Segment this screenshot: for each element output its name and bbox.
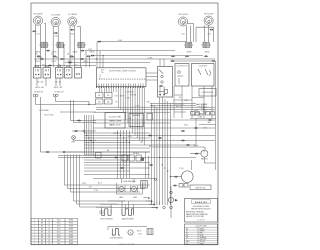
svg-text:H-2: H-2	[75, 64, 78, 66]
svg-text:BK-12: BK-12	[52, 61, 57, 63]
wire	[203, 86, 205, 118]
wire L2 bus	[34, 58, 215, 60]
connector CN46	[149, 164, 153, 166]
receptacle block J2	[56, 42, 65, 48]
svg-text:14: 14	[48, 220, 50, 222]
connector CN42	[208, 119, 212, 121]
svg-text:8 GY 6 BR: 8 GY 6 BR	[126, 91, 134, 93]
connector CN22	[97, 41, 101, 43]
connector CN3	[69, 55, 73, 57]
surface element SE3 (LF 1800W)	[68, 14, 77, 26]
svg-text:8 BU: 8 BU	[113, 133, 116, 135]
bake element E2	[122, 209, 134, 216]
svg-text:BK/W: BK/W	[36, 51, 41, 53]
connector pair P1	[32, 30, 36, 32]
svg-text:1 BK: 1 BK	[114, 96, 117, 98]
connector CN48	[148, 135, 152, 137]
wire	[69, 26, 71, 44]
svg-text:SEW1: SEW1	[69, 231, 74, 233]
wire rungs EOC-relay	[146, 72, 158, 74]
switch block SB4	[105, 99, 113, 104]
connector CN32	[60, 58, 64, 60]
svg-text:DISCONNECT POWER: DISCONNECT POWER	[193, 206, 210, 208]
svg-text:SEW1: SEW1	[69, 240, 74, 242]
svg-text:DOOR SW: DOOR SW	[199, 66, 207, 68]
legend box	[129, 114, 144, 127]
svg-text:LOCK MOTOR: LOCK MOTOR	[177, 66, 189, 68]
svg-text:14: 14	[48, 243, 50, 245]
relay K1 internals	[159, 70, 168, 94]
wire	[55, 78, 57, 86]
infinite switch S1	[34, 66, 42, 79]
svg-text:BAKE 12:00: BAKE 12:00	[110, 124, 122, 127]
label rows L2	[36, 57, 89, 66]
svg-text:1: 1	[34, 226, 35, 228]
svg-text:LR 1250W: LR 1250W	[51, 15, 60, 17]
wire	[191, 160, 193, 170]
warning box frame	[185, 199, 218, 223]
wire	[93, 178, 155, 180]
svg-text:14: 14	[48, 237, 50, 239]
connector CN2	[52, 55, 56, 57]
infinite switch S2	[43, 66, 51, 79]
wire end arrow	[154, 204, 156, 206]
wire bundle lower-left	[65, 155, 151, 208]
lower element E3	[112, 229, 120, 236]
pigtail	[179, 184, 183, 188]
svg-text:BK/W - BK: BK/W - BK	[35, 87, 44, 89]
svg-text:W 14 RD: W 14 RD	[130, 94, 137, 96]
svg-text:— ——: — ——	[134, 125, 139, 127]
connector pair P4	[209, 29, 213, 31]
svg-text:BEFORE SERVICING UNIT: BEFORE SERVICING UNIT	[191, 208, 210, 210]
svg-text:OVEN SENSOR: OVEN SENSOR	[202, 92, 215, 94]
svg-text:120V: 120V	[138, 233, 142, 235]
connector CN33	[80, 58, 84, 60]
terminal block TB1	[147, 229, 153, 235]
connector CN34	[68, 62, 72, 64]
connector pair P3	[70, 29, 74, 31]
svg-text:BROIL ELEMENT: BROIL ELEMENT	[100, 218, 113, 220]
svg-text:BK W: BK W	[137, 230, 141, 232]
wire	[211, 86, 213, 118]
wire	[63, 44, 65, 68]
aux box	[147, 114, 153, 121]
wire	[72, 130, 96, 132]
broil element E1	[102, 209, 112, 216]
relay lead arrows	[159, 94, 165, 96]
wire L1 bus	[97, 41, 186, 43]
svg-text:LF 1800W: LF 1800W	[68, 14, 77, 16]
wire	[74, 44, 76, 68]
wire	[57, 44, 59, 68]
fuse block F1	[96, 153, 102, 159]
svg-text:SEW1: SEW1	[69, 223, 74, 225]
infinite switch S4	[65, 66, 73, 79]
wire	[196, 26, 214, 28]
relay K2	[122, 155, 127, 161]
svg-text:4 W: 4 W	[89, 187, 92, 189]
wire	[150, 103, 196, 105]
junction dots	[84, 55, 171, 208]
wire	[45, 78, 47, 86]
wire	[45, 44, 47, 68]
wire	[34, 65, 96, 67]
svg-text:BK/W: BK/W	[73, 51, 78, 53]
svg-text:4BU: 4BU	[208, 122, 211, 124]
svg-text:1: 1	[34, 220, 35, 222]
svg-text:14: 14	[48, 240, 50, 242]
connector CN24	[211, 60, 215, 62]
ignitor box	[190, 185, 211, 190]
color code table	[185, 224, 218, 245]
cooling fan motor M1	[201, 150, 208, 157]
wire pair	[58, 155, 130, 157]
junction	[163, 206, 165, 208]
svg-text:1: 1	[34, 243, 35, 245]
svg-text:14: 14	[48, 226, 50, 228]
receptacle block J1	[40, 42, 49, 48]
svg-text:BK/W: BK/W	[187, 51, 192, 53]
connector CN43	[194, 127, 198, 129]
svg-text:2B - 2A: 2B - 2A	[55, 80, 62, 83]
oven sensor box	[199, 89, 216, 97]
surface element SE2 (LR 1250W)	[51, 15, 60, 27]
door switch box	[192, 64, 215, 87]
svg-text:1: 1	[34, 234, 35, 236]
connector CN6	[185, 55, 189, 57]
ground lamp G1	[72, 136, 76, 140]
wire	[215, 61, 217, 170]
wire bundle left	[85, 115, 94, 155]
wire bundle right	[152, 97, 171, 205]
wire drops to EOC	[86, 42, 103, 68]
svg-text:BK: BK	[179, 97, 181, 99]
connector CN44	[186, 144, 190, 146]
junction	[88, 104, 89, 105]
wire	[108, 226, 147, 228]
wire	[92, 55, 203, 57]
wire	[152, 146, 206, 148]
svg-text:F: F	[98, 155, 99, 157]
lock assembly box	[175, 64, 189, 87]
drawing border frame	[31, 3, 218, 245]
connector CN21	[90, 55, 94, 57]
right ladder rungs	[174, 99, 192, 101]
wire	[34, 44, 36, 68]
svg-text:RF 2450W: RF 2450W	[33, 13, 42, 15]
lock internals	[177, 71, 183, 84]
motor M3	[128, 230, 133, 235]
svg-text:14: 14	[48, 223, 50, 225]
svg-text:RR 1500W: RR 1500W	[178, 14, 187, 16]
svg-text:SEW1: SEW1	[69, 220, 74, 222]
connector CN49	[158, 137, 162, 139]
svg-text:BK-12: BK-12	[84, 61, 89, 63]
EOC pin drop wires	[100, 87, 145, 146]
wire	[108, 200, 152, 202]
wire	[34, 25, 36, 31]
connector CN23	[170, 60, 174, 62]
svg-text:12 BK: 12 BK	[148, 57, 154, 59]
surface element SE4 (RR 1500W)	[178, 14, 187, 26]
surface element SE1 (RF 2450W)	[33, 13, 42, 25]
svg-text:BK/W: BK/W	[205, 51, 210, 53]
svg-text:14: 14	[48, 228, 50, 230]
wire	[34, 31, 36, 44]
svg-text:GY: GY	[186, 243, 188, 245]
wire	[80, 51, 82, 68]
lamp feed wires	[121, 179, 123, 184]
wire	[159, 59, 161, 67]
wire	[188, 23, 194, 25]
wire	[89, 104, 96, 106]
wire	[85, 50, 175, 52]
small circle node	[155, 178, 157, 180]
diamond splice	[83, 130, 86, 132]
wire	[203, 157, 205, 163]
svg-text:14: 14	[48, 231, 50, 233]
EOC internal dots	[99, 75, 102, 80]
svg-text:BK - 6: BK - 6	[98, 183, 102, 185]
svg-text:2CB: 2CB	[208, 34, 211, 36]
connector CN10	[77, 120, 81, 122]
svg-text:BK W: BK W	[120, 96, 125, 98]
connector CN4	[86, 55, 90, 57]
connector CN1	[36, 55, 40, 57]
wire	[70, 100, 72, 121]
wire	[159, 86, 161, 94]
wire	[186, 26, 188, 42]
svg-text:— ——: — ——	[134, 120, 139, 122]
wire	[44, 23, 45, 25]
receptacle block J3	[77, 42, 86, 48]
dark module	[141, 158, 145, 161]
EOC pin numbers	[99, 79, 145, 80]
connector CN35	[48, 65, 52, 67]
EOC pin row	[96, 84, 144, 88]
svg-text:10 W/R OR: 10 W/R OR	[34, 92, 44, 94]
svg-text:1: 1	[34, 223, 35, 225]
wire	[190, 153, 201, 155]
wire end arrow	[148, 197, 150, 199]
wire	[77, 26, 81, 28]
svg-text:1: 1	[34, 237, 35, 239]
svg-text:P/N: P/N	[101, 72, 104, 74]
wire	[99, 211, 101, 215]
wire	[52, 26, 54, 45]
wire	[69, 44, 71, 68]
receptacle block J4	[184, 42, 193, 48]
svg-text:P 100: P 100	[179, 168, 183, 170]
wire	[195, 118, 197, 147]
wire	[190, 118, 216, 120]
svg-text:( 5 1 7 8 ): ( 5 1 7 8 )	[198, 220, 205, 222]
relay K3	[129, 155, 134, 161]
receptacle block J5	[202, 42, 211, 48]
relay K4	[136, 155, 141, 161]
connector CN11	[74, 130, 78, 132]
infinite switch S3	[56, 66, 64, 79]
wire	[152, 202, 160, 206]
svg-text:BK-8: BK-8	[184, 125, 188, 127]
connector CN47	[120, 167, 124, 169]
connector CN50	[173, 185, 177, 187]
wire	[191, 86, 193, 118]
svg-text:2B - 2A: 2B - 2A	[37, 80, 44, 83]
wire	[204, 25, 206, 42]
switch block SB1	[96, 93, 104, 98]
wire body loop	[40, 97, 42, 152]
svg-text:14: 14	[48, 234, 50, 236]
svg-text:BK/W - BK: BK/W - BK	[54, 87, 63, 89]
wire	[36, 78, 38, 86]
wire	[173, 86, 175, 118]
wire	[73, 140, 75, 141]
wire	[35, 97, 37, 105]
connector CN40	[181, 130, 185, 132]
wire	[60, 111, 96, 113]
svg-text:BK/W: BK/W	[52, 51, 57, 53]
svg-text:BK 14: BK 14	[203, 112, 207, 114]
element drop wires	[121, 201, 123, 209]
svg-text:1: 1	[34, 240, 35, 242]
svg-text:— ——: — ——	[134, 123, 139, 125]
connector pair P2	[54, 32, 58, 34]
wire chart table	[31, 219, 78, 246]
svg-text:SEW1: SEW1	[69, 228, 74, 230]
indicator light DS2	[53, 94, 55, 96]
clock display box U2	[105, 113, 125, 129]
page background	[0, 0, 250, 250]
door lock switch	[170, 191, 173, 194]
svg-text:RF 2100W: RF 2100W	[204, 13, 213, 15]
wire harness bus	[64, 107, 215, 174]
svg-text:LOWER ELEMENT: LOWER ELEMENT	[109, 238, 122, 240]
connector CN9	[45, 151, 49, 153]
convection motor M2	[182, 171, 194, 183]
sensor terminal comb	[196, 104, 207, 114]
wire	[65, 62, 150, 64]
svg-text:IGNITOR 120V: IGNITOR 120V	[195, 187, 205, 189]
wire	[171, 60, 215, 62]
oven lamp assembly DS4	[117, 180, 143, 194]
wire	[170, 176, 181, 178]
svg-text:SEW1: SEW1	[69, 226, 74, 228]
svg-text:BODY GND: BODY GND	[45, 115, 55, 117]
electronic oven control U1	[97, 68, 147, 87]
svg-text:TIMER OVEN: TIMER OVEN	[109, 121, 122, 123]
svg-text:SEW1: SEW1	[69, 237, 74, 239]
svg-text:1: 1	[34, 231, 35, 233]
svg-text:BK/W: BK/W	[90, 51, 95, 53]
svg-text:SEW1: SEW1	[69, 234, 74, 236]
svg-text:1: 1	[34, 228, 35, 230]
wire end arrow	[151, 200, 153, 202]
svg-text:BK-12: BK-12	[36, 61, 41, 63]
connector CN30	[46, 50, 50, 52]
svg-text:BK 14: BK 14	[203, 104, 207, 106]
terminal box TB2	[141, 181, 148, 189]
svg-text:10 W/R OR: 10 W/R OR	[55, 92, 65, 94]
wire	[170, 186, 172, 218]
svg-text:D-RD W-BK: D-RD W-BK	[39, 110, 49, 112]
wire rung	[174, 111, 186, 113]
svg-text:1CB: 1CB	[182, 34, 185, 36]
junction node	[63, 151, 65, 153]
svg-text:SEW1: SEW1	[69, 243, 74, 245]
connector CN41	[181, 140, 185, 142]
wire	[71, 120, 97, 122]
svg-text:5 BU: 5 BU	[126, 97, 129, 99]
indicator light DS1	[33, 94, 35, 96]
wire	[40, 44, 42, 68]
relay box K1	[158, 67, 173, 98]
wire	[96, 206, 157, 208]
wire	[145, 152, 147, 179]
svg-text:— ——: — ——	[134, 118, 139, 120]
connector CN45	[114, 157, 118, 159]
switch block SB2	[105, 93, 113, 98]
wire bundle center	[118, 130, 130, 179]
surface element SE5 (RF 2100W)	[204, 13, 213, 25]
svg-text:Z X U 4 J T 7 I Z 6: Z X U 4 J T 7 I Z 6	[119, 244, 134, 246]
svg-text:BK 120V: BK 120V	[176, 107, 183, 109]
warning text	[186, 200, 211, 222]
legend rows	[132, 114, 140, 127]
connector CN20	[80, 50, 84, 52]
svg-text:CLOCK CTRL: CLOCK CTRL	[109, 117, 123, 119]
wire	[195, 27, 197, 42]
wire	[100, 203, 154, 205]
door switch blades	[198, 69, 201, 75]
arrow	[175, 199, 178, 201]
connector CN5	[171, 55, 175, 57]
connector CN31	[40, 58, 44, 60]
wire	[52, 44, 54, 68]
selector switch S5	[75, 68, 82, 79]
pigtail boxes	[191, 112, 195, 116]
connector CN7	[204, 55, 208, 57]
svg-text:ELECTRONIC OVEN CONTROL: ELECTRONIC OVEN CONTROL	[109, 70, 136, 72]
wire end arrow	[156, 207, 158, 209]
wire	[181, 86, 183, 118]
switch block SB3	[96, 99, 104, 104]
